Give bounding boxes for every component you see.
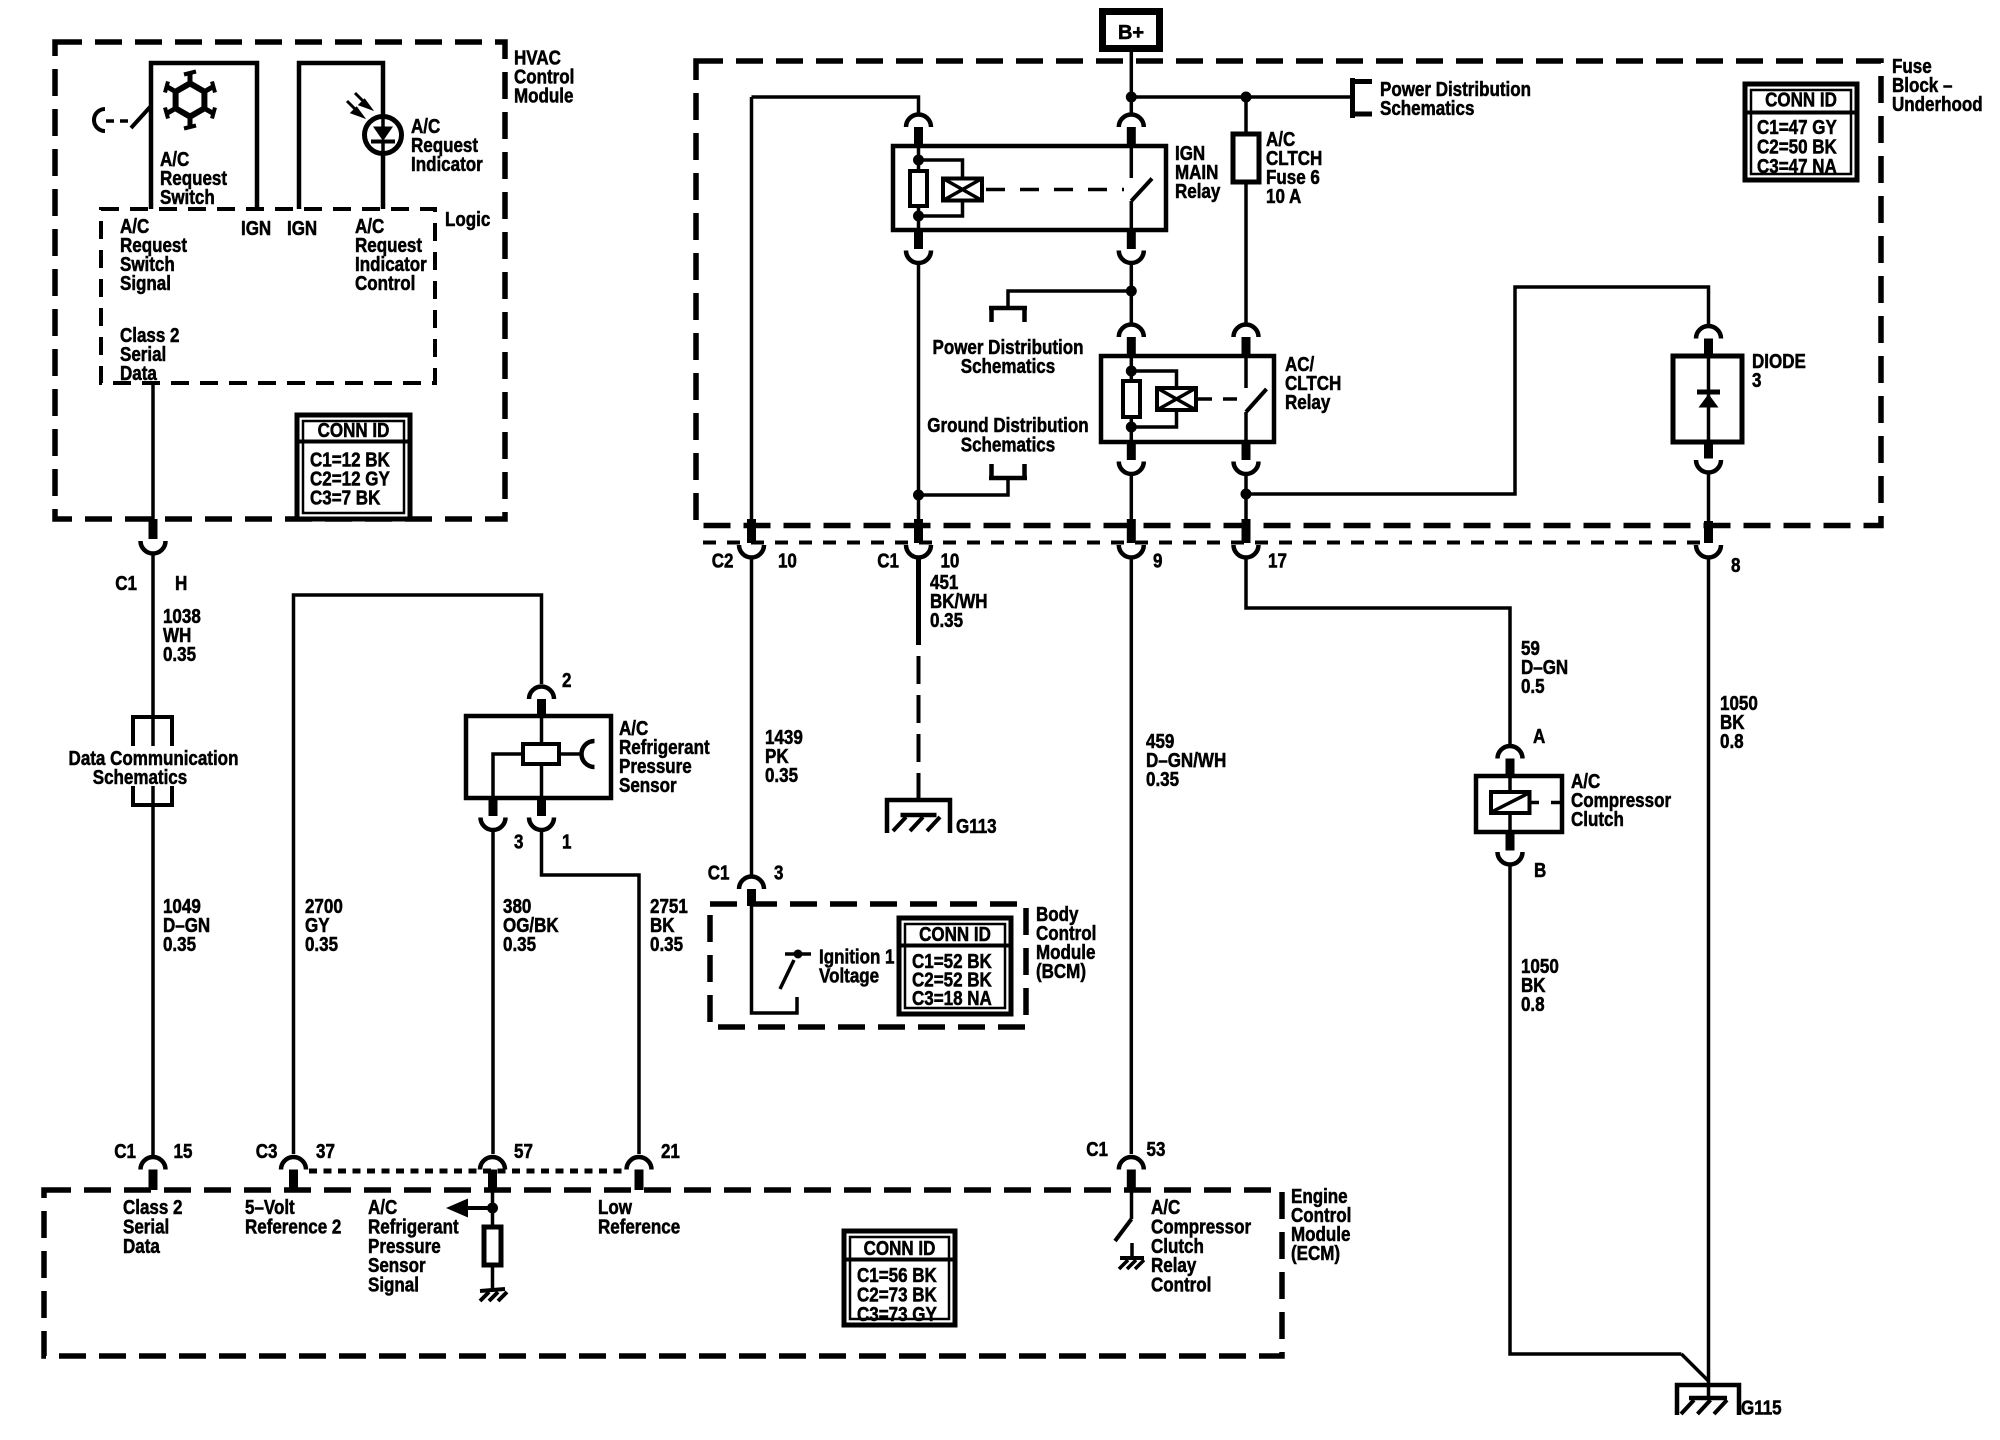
coil clutch symbol: [1491, 776, 1562, 832]
label 15: [174, 1140, 193, 1163]
svg-text:CONN ID: CONN ID: [1765, 88, 1837, 111]
svg-text:0.8: 0.8: [1720, 730, 1744, 753]
svg-text:Reference: Reference: [598, 1215, 680, 1238]
diode D3 symbol: [1697, 356, 1720, 442]
svg-text:B+: B+: [1118, 22, 1144, 44]
svg-text:Sensor: Sensor: [619, 774, 677, 797]
label 8: [1731, 554, 1740, 577]
label C1: [114, 1140, 136, 1163]
label 10: [940, 549, 959, 572]
connector pin 57 ECM: [480, 1157, 505, 1190]
svg-text:IGN: IGN: [287, 217, 317, 240]
connector pin relay K1 top-right: [1119, 115, 1144, 147]
resistor K1 coil shunt: [910, 171, 927, 206]
wire 2751 BK: [542, 831, 640, 1154]
svg-text:9: 9: [1153, 549, 1162, 572]
svg-text:10: 10: [778, 549, 797, 572]
svg-text:(ECM): (ECM): [1291, 1242, 1340, 1265]
connector pin relay K1 top-left: [906, 115, 931, 147]
svg-text:Indicator: Indicator: [411, 153, 483, 176]
wire K2 coil loop: [1131, 371, 1176, 427]
svg-text:10: 10: [940, 549, 959, 572]
label H: [175, 572, 187, 595]
dotted connector face ECM: [309, 1169, 627, 1174]
svg-text:C3=18 NA: C3=18 NA: [912, 987, 992, 1010]
label HVAC Control Module: [514, 46, 574, 107]
svg-text:Relay: Relay: [1175, 180, 1221, 203]
connector pin diode bottom: [1696, 442, 1721, 473]
wire 1050 BK from pin 8 to G115: [1707, 559, 1711, 1397]
wire 59 D-GN to clutch: [1246, 559, 1510, 745]
svg-text:C1: C1: [115, 572, 137, 595]
resistor ECM pull: [484, 1227, 501, 1265]
ground internal ECM (sensor): [480, 1289, 507, 1301]
connector C1 pin 3 BCM: [739, 876, 764, 906]
connector C2 pin 10 fuse block: [739, 519, 764, 558]
wire class 2 serial data inside HVAC: [151, 383, 155, 519]
svg-text:IGN: IGN: [241, 217, 271, 240]
svg-text:CONN ID: CONN ID: [318, 419, 390, 442]
label Body Control Module (BCM): [1036, 903, 1096, 983]
wire fuse feed: [1244, 97, 1248, 134]
wire 1050 BK clutch to G115: [1510, 866, 1709, 1382]
wire 1038 WH: [151, 555, 155, 718]
label Fuse Block - Underhood: [1892, 55, 1983, 116]
ground G113: [887, 800, 950, 833]
svg-text:(BCM): (BCM): [1036, 960, 1086, 983]
connector pin relay K1 bottom-right: [1119, 230, 1144, 263]
label Low Reference: [598, 1196, 680, 1238]
svg-text:Control: Control: [355, 272, 415, 295]
label 17: [1268, 549, 1287, 572]
svg-text:Data: Data: [120, 362, 157, 385]
wire 1439 PK: [750, 559, 754, 877]
wire 2700 GY top run: [294, 595, 542, 1154]
wire B+ drop: [1130, 52, 1134, 114]
label 3: [514, 830, 523, 853]
label C1: [877, 549, 899, 572]
offpage bracket Power Distribution (middle): [989, 291, 1131, 322]
svg-text:53: 53: [1146, 1138, 1165, 1161]
ground G115: [1677, 1385, 1739, 1415]
wire label 1050 BK 0.8 (left): [1521, 955, 1559, 1016]
wire diode to pin 8: [1707, 473, 1711, 521]
svg-text:Switch: Switch: [160, 186, 215, 209]
wire C2-10 drop: [750, 97, 754, 519]
svg-text:Schematics: Schematics: [93, 766, 187, 789]
svg-text:37: 37: [316, 1140, 335, 1163]
connector pin 2 sensor: [529, 687, 554, 717]
wire 380 OG/BK: [491, 831, 495, 1154]
svg-text:0.35: 0.35: [1146, 768, 1179, 791]
node junction sensor signal: [487, 1203, 498, 1214]
svg-text:21: 21: [661, 1140, 680, 1163]
svg-text:3: 3: [774, 861, 783, 884]
component box A/C Refrigerant Pressure Sensor: [466, 716, 611, 798]
label A/C Compressor Clutch: [1571, 770, 1671, 831]
module box Engine Control Module (ECM): [44, 1190, 1282, 1356]
switch Ignition 1 Voltage: [780, 950, 811, 990]
connector pin diode top: [1696, 326, 1721, 356]
dashed actuator link K2: [1198, 397, 1240, 401]
svg-text:Control: Control: [1151, 1273, 1211, 1296]
label G113: [956, 815, 997, 838]
svg-text:0.35: 0.35: [305, 933, 338, 956]
switch lever A/C Request Switch: [131, 106, 151, 128]
offpage bracket Ground Distribution: [919, 464, 1028, 495]
svg-text:CONN ID: CONN ID: [919, 923, 991, 946]
wire label 59 D-GN 0.5: [1521, 637, 1568, 698]
wire K2 output down: [1244, 475, 1248, 519]
component box A/C Request Indicator: [299, 63, 383, 209]
connector pin 1 sensor: [529, 798, 554, 830]
svg-text:C3=73 GY: C3=73 GY: [857, 1303, 937, 1326]
svg-text:Clutch: Clutch: [1571, 808, 1624, 831]
switch contact K2: [1246, 356, 1267, 442]
component box A/C Request Switch: [151, 63, 257, 209]
offpage box Data Communication Schematics: [58, 717, 242, 805]
ground internal ECM (driver): [1119, 1258, 1144, 1269]
label 37: [316, 1140, 335, 1163]
label 2: [562, 669, 571, 692]
wire fuse to relay K2: [1244, 182, 1248, 324]
connector pin 17 fuse block: [1234, 519, 1259, 558]
svg-text:C1: C1: [708, 861, 730, 884]
connector pin A clutch: [1498, 746, 1523, 776]
diode D3 box: [1673, 356, 1742, 442]
switch contact K1: [1131, 146, 1152, 230]
svg-text:Signal: Signal: [368, 1273, 419, 1296]
label A/C CLTCH Fuse 6 10 A: [1266, 128, 1322, 208]
label 3: [774, 861, 783, 884]
label IGN MAIN Relay: [1175, 142, 1221, 203]
wire coil feed bus: [752, 97, 919, 114]
label C3: [256, 1140, 278, 1163]
svg-text:CONN ID: CONN ID: [864, 1237, 936, 1260]
label Power Distribution Schematics (top): [1380, 78, 1531, 120]
wire label 451 BK/WH 0.35: [930, 571, 988, 632]
label AC/ CLTCH Relay: [1285, 353, 1341, 414]
label 53: [1146, 1138, 1165, 1161]
svg-text:A: A: [1533, 725, 1545, 748]
label IGN pin: [241, 217, 271, 240]
label 57: [514, 1140, 533, 1163]
connector pin B clutch: [1498, 832, 1523, 864]
connector pin relay K2 bottom-right: [1234, 442, 1259, 474]
label Power Distribution Schematics (middle): [932, 336, 1083, 378]
connector pin 9 fuse block: [1119, 519, 1144, 558]
wire K2 coil low to pin 9: [1130, 475, 1134, 519]
coil K2 (crossed box): [1157, 388, 1196, 410]
svg-text:Reference 2: Reference 2: [245, 1215, 341, 1238]
svg-text:C3=47 NA: C3=47 NA: [1757, 155, 1837, 178]
relay K2 AC/CLTCH Relay: [1101, 356, 1274, 442]
offpage arrow Power Distribution Schematics (top): [1353, 78, 1373, 118]
svg-text:Schematics: Schematics: [1380, 97, 1474, 120]
label C1: [115, 572, 137, 595]
relay K1 IGN MAIN Relay: [893, 146, 1166, 230]
svg-text:0.8: 0.8: [1521, 993, 1545, 1016]
label C1: [1086, 1138, 1108, 1161]
svg-text:Logic: Logic: [445, 208, 490, 231]
svg-text:Schematics: Schematics: [961, 355, 1055, 378]
svg-text:Module: Module: [514, 84, 573, 107]
B+ power terminal: [1099, 8, 1163, 52]
node junction power distribution tap: [1126, 286, 1137, 297]
dotted connector face fuse block: [703, 541, 1710, 545]
pressure port symbol: [559, 741, 595, 767]
svg-text:3: 3: [514, 830, 523, 853]
wire label 1050 BK 0.8 (right): [1720, 692, 1758, 753]
svg-text:10 A: 10 A: [1266, 185, 1301, 208]
svg-text:0.35: 0.35: [163, 643, 196, 666]
connector pin 8 fuse block: [1696, 521, 1721, 558]
label A/C Request Switch: [160, 148, 227, 209]
label Class 2 Serial Data: [120, 324, 180, 385]
node junction diode tap: [1241, 489, 1252, 500]
connector pin 21 ECM: [627, 1157, 652, 1190]
svg-text:C3: C3: [256, 1140, 278, 1163]
wire resistor to ground: [491, 1265, 495, 1289]
svg-text:0.35: 0.35: [650, 933, 683, 956]
connector C3 pin 37 ECM: [281, 1157, 306, 1190]
label A/C Refrigerant Pressure Sensor: [619, 717, 710, 797]
node junction ground distribution tap: [913, 490, 924, 501]
label 9: [1153, 549, 1162, 572]
svg-text:C1: C1: [877, 549, 899, 572]
label C1: [708, 861, 730, 884]
label C2: [712, 549, 734, 572]
label Logic: [445, 208, 490, 231]
svg-text:C3=7 BK: C3=7 BK: [310, 486, 381, 509]
connector C1 pin 53 ECM: [1119, 1157, 1144, 1190]
connector pin relay K2 bottom-left: [1119, 442, 1144, 474]
svg-text:H: H: [175, 572, 187, 595]
svg-text:B: B: [1534, 859, 1546, 882]
module box HVAC Control Module: [55, 42, 505, 519]
wire label 1049 D-GN 0.35: [163, 895, 210, 956]
fuse F6 A/C CLTCH Fuse 6 10A: [1233, 134, 1259, 182]
arrow sensor signal: [446, 1199, 493, 1218]
label A/C Request Indicator Control: [355, 215, 427, 295]
wire label 459 D-GN/WH 0.35: [1146, 730, 1226, 791]
svg-text:Underhood: Underhood: [1892, 93, 1983, 116]
LED A/C Request Indicator: [365, 117, 402, 154]
wire B+ bus to offpage: [1131, 95, 1352, 99]
wire K2 coil bottom: [1126, 417, 1137, 442]
svg-text:G113: G113: [956, 815, 997, 838]
wire 451 BK/WH dashed to G113: [916, 559, 921, 813]
wire 1049 D-GN: [151, 805, 155, 1155]
snowflake icon: [165, 72, 215, 129]
label G115: [1741, 1396, 1782, 1419]
svg-text:0.35: 0.35: [930, 609, 963, 632]
resistor sensor element: [523, 744, 559, 764]
label A/C Compressor Clutch Relay Control: [1151, 1196, 1251, 1296]
wire sensor internal left branch: [493, 754, 523, 798]
label Engine Control Module (ECM): [1291, 1185, 1351, 1265]
label 1: [562, 830, 571, 853]
wire K1 output down: [1130, 264, 1134, 325]
label Class 2 Serial Data (ECM): [123, 1196, 183, 1257]
label 10: [778, 549, 797, 572]
wire K1 coil top: [913, 146, 924, 171]
svg-text:2: 2: [562, 669, 571, 692]
node junction fuse tap: [1241, 92, 1252, 103]
svg-text:17: 17: [1268, 549, 1287, 572]
svg-text:3: 3: [1752, 369, 1761, 392]
label 5-Volt Reference 2: [245, 1196, 341, 1238]
svg-text:C2: C2: [712, 549, 734, 572]
label 21: [661, 1140, 680, 1163]
svg-text:0.5: 0.5: [1521, 675, 1545, 698]
svg-text:0.35: 0.35: [765, 764, 798, 787]
CONN ID table BCM: [899, 918, 1011, 1014]
label IGN pin 2: [287, 217, 317, 240]
wire to diode: [1246, 287, 1709, 494]
module box Body Control Module (BCM): [710, 904, 1026, 1027]
connector C1 pin 10 fuse block: [906, 519, 931, 558]
svg-text:C1: C1: [114, 1140, 136, 1163]
wire label 380 OG/BK 0.35: [503, 895, 559, 956]
svg-text:8: 8: [1731, 554, 1740, 577]
CONN ID table Fuse Block: [1745, 84, 1857, 180]
wire label 2700 GY 0.35: [305, 895, 343, 956]
wire sensor internal vertical: [540, 716, 544, 798]
LED light arrows: [347, 93, 370, 116]
label DIODE 3: [1752, 350, 1806, 392]
logic box dashed: [101, 209, 435, 383]
dashed switch lead: [106, 119, 131, 123]
svg-text:G115: G115: [1741, 1396, 1782, 1419]
label A/C Refrigerant Pressure Sensor Signal: [368, 1196, 459, 1296]
connector C1 pin 15 ECM: [141, 1157, 166, 1190]
svg-text:Data: Data: [123, 1234, 160, 1257]
svg-text:C1: C1: [1086, 1138, 1108, 1161]
dashed actuator link K1: [986, 188, 1124, 192]
connector pin relay K2 top-right: [1234, 325, 1259, 357]
CONN ID table ECM: [844, 1231, 955, 1325]
wire sensor signal inside ECM: [491, 1190, 495, 1227]
svg-text:Relay: Relay: [1285, 391, 1331, 414]
connector pin relay K2 top-left: [1119, 325, 1144, 357]
svg-text:0.35: 0.35: [503, 933, 536, 956]
wire K1 coil bottom: [913, 206, 924, 230]
CONN ID table HVAC: [297, 415, 410, 519]
curl terminal: [94, 109, 105, 131]
label B: [1534, 859, 1546, 882]
label A/C Request Switch Signal: [120, 215, 187, 295]
svg-text:0.35: 0.35: [163, 933, 196, 956]
wire K1 coil low side to C1-10: [917, 264, 921, 520]
svg-text:Schematics: Schematics: [961, 433, 1055, 456]
label A/C Request Indicator: [411, 115, 483, 176]
wire 459 D-GN/WH: [1130, 559, 1134, 1155]
module box Fuse Block - Underhood: [696, 61, 1881, 526]
svg-text:1: 1: [562, 830, 571, 853]
wire label 1439 PK 0.35: [765, 726, 803, 787]
svg-text:15: 15: [174, 1140, 193, 1163]
switch A/C compressor clutch relay control driver: [1115, 1190, 1132, 1258]
svg-text:57: 57: [514, 1140, 533, 1163]
component box A/C Compressor Clutch: [1476, 776, 1562, 832]
label Ground Distribution Schematics: [927, 414, 1088, 456]
wire label 1038 WH 0.35: [163, 605, 201, 666]
svg-text:Signal: Signal: [120, 272, 171, 295]
coil K1 (crossed box): [943, 179, 982, 201]
svg-text:Voltage: Voltage: [819, 964, 879, 987]
wire label 2751 BK 0.35: [650, 895, 688, 956]
wire ignition feed inside BCM: [752, 906, 798, 1013]
connector pin relay K1 bottom-left: [906, 230, 931, 263]
resistor K2 coil shunt: [1123, 381, 1140, 417]
connector pin 3 sensor: [481, 798, 506, 830]
wire K2 coil top: [1126, 356, 1137, 381]
label A: [1533, 725, 1545, 748]
node junction B+ bus: [1126, 92, 1137, 103]
connector C1 pin H (HVAC): [141, 519, 166, 554]
label Ignition 1 Voltage: [819, 945, 894, 987]
wire K1 coil loop: [919, 160, 963, 216]
